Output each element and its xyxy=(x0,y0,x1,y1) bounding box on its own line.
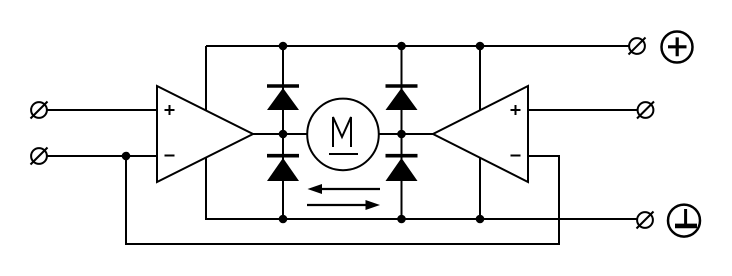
op-amp U1 xyxy=(157,86,253,182)
motor M1 xyxy=(307,99,379,171)
terminal X1 xyxy=(31,102,48,119)
diode D4 xyxy=(386,156,418,181)
junction right branch motor node xyxy=(397,130,406,139)
positive supply symbol xyxy=(662,32,693,63)
wire left diode branch xyxy=(282,46,284,219)
wire right diode branch xyxy=(401,46,403,219)
wire right amp noninverting input xyxy=(528,109,638,111)
op-amp U2 xyxy=(433,86,528,182)
wire feedback from node A to right amp inverting input xyxy=(126,156,559,244)
wire top supply rail xyxy=(206,45,629,47)
terminal X3 xyxy=(629,38,646,55)
junction bottom rail left branch xyxy=(279,215,288,224)
ground earth symbol xyxy=(668,205,700,237)
wire left amp inverting input xyxy=(47,155,157,157)
arrow rotation left xyxy=(308,184,381,194)
junction top rail right branch xyxy=(397,42,406,51)
junction top rail right amp supply xyxy=(476,42,485,51)
junction left branch motor node xyxy=(279,130,288,139)
diode D3 xyxy=(386,86,418,110)
diode D1 xyxy=(267,86,299,110)
wire right amp negative supply xyxy=(479,134,481,219)
diode D2 xyxy=(267,156,299,181)
junction bottom rail right branch xyxy=(397,215,406,224)
junction bottom rail right amp supply xyxy=(476,215,485,224)
junction top rail left branch xyxy=(279,42,288,51)
wire left amp positive supply xyxy=(205,46,207,134)
wire bottom supply rail xyxy=(205,218,637,220)
wire left amp noninverting input xyxy=(47,109,157,111)
arrow rotation right xyxy=(307,200,380,210)
wire motor bridge middle xyxy=(253,133,433,135)
terminal X5 xyxy=(637,212,654,229)
terminal X2 xyxy=(31,148,48,165)
wire right amp positive supply xyxy=(479,46,481,134)
node A inverting input junction xyxy=(122,152,131,161)
wire left amp negative supply xyxy=(205,134,207,219)
terminal X4 xyxy=(637,102,654,119)
